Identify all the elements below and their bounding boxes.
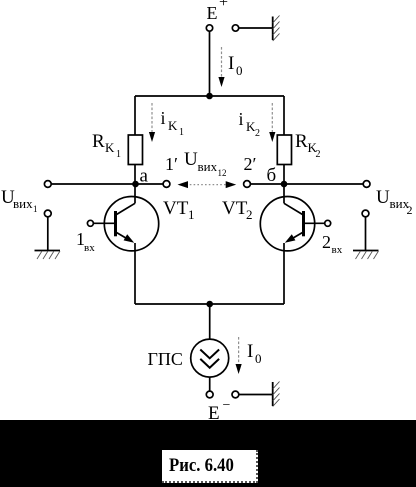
caption band bbox=[0, 420, 416, 487]
svg-text:1′: 1′ bbox=[165, 154, 178, 174]
svg-text:2: 2 bbox=[246, 207, 253, 222]
label VT2 bbox=[222, 198, 253, 222]
label 2vx bbox=[322, 232, 343, 256]
svg-text:1: 1 bbox=[179, 127, 184, 138]
svg-text:i: i bbox=[161, 108, 166, 128]
caption text bbox=[169, 456, 266, 475]
wire rail to RK1 bbox=[134, 96, 136, 135]
svg-text:б: б bbox=[267, 165, 277, 186]
current iK1 arrow bbox=[149, 103, 155, 142]
current I0 bottom arrow bbox=[236, 337, 242, 374]
wire left output bbox=[51, 183, 135, 185]
wire node a to 1' bbox=[136, 183, 164, 185]
node b bbox=[281, 181, 288, 188]
wire top rail bbox=[135, 95, 284, 97]
caption box Ris 6.40 bbox=[162, 450, 258, 483]
wire top terminal to chassis bbox=[239, 27, 272, 29]
label 1' bbox=[165, 154, 178, 174]
label I0 bbox=[228, 53, 243, 78]
svg-text:0: 0 bbox=[255, 351, 262, 366]
svg-text:I: I bbox=[247, 341, 253, 362]
wire E+ down to top node bbox=[209, 31, 211, 96]
svg-text:вих: вих bbox=[13, 196, 33, 211]
svg-text:K: K bbox=[105, 140, 115, 155]
svg-text:вих: вих bbox=[198, 159, 218, 174]
terminal 2vx bbox=[325, 220, 331, 226]
current source GPS bbox=[191, 339, 229, 377]
svg-text:i: i bbox=[239, 109, 244, 129]
svg-text:1: 1 bbox=[188, 207, 195, 222]
svg-text:U: U bbox=[184, 149, 198, 170]
svg-text:VT: VT bbox=[222, 198, 248, 219]
terminal 2' bbox=[244, 181, 251, 188]
transistor VT1 bbox=[94, 184, 159, 304]
label iK2 bbox=[239, 109, 261, 139]
label VT1 bbox=[163, 198, 195, 222]
ground left bbox=[35, 251, 61, 260]
label RK1 bbox=[92, 131, 121, 160]
wire bottom rail bbox=[135, 303, 284, 305]
ground right bbox=[353, 251, 379, 260]
wire GPS to E- terminal bbox=[209, 378, 211, 391]
current iK2 arrow bbox=[269, 103, 275, 142]
wire RK1 to node a bbox=[134, 165, 136, 185]
svg-text:0: 0 bbox=[236, 63, 243, 78]
svg-text:1: 1 bbox=[33, 204, 38, 214]
node bottom junction bbox=[206, 301, 213, 308]
terminal Uvyh2 bbox=[363, 181, 370, 188]
wire right output bbox=[284, 183, 363, 185]
svg-text:2: 2 bbox=[322, 232, 331, 252]
label node a bbox=[140, 166, 149, 187]
chassis ground bottom right bbox=[273, 382, 280, 407]
wire RK2 to node b bbox=[283, 165, 285, 185]
label node b bbox=[267, 165, 277, 186]
terminal Uvyh1 bbox=[44, 181, 51, 188]
terminal left ground bbox=[44, 210, 51, 217]
label RK2 bbox=[295, 131, 321, 160]
label Uvyh2 bbox=[376, 187, 413, 217]
svg-text:R: R bbox=[92, 131, 105, 152]
wire to right ground bbox=[365, 217, 367, 250]
label E- bbox=[208, 398, 231, 424]
label Uvyh12 bbox=[184, 149, 227, 178]
svg-text:−: − bbox=[223, 398, 231, 413]
current I0 top arrow bbox=[218, 47, 224, 87]
svg-text:R: R bbox=[295, 131, 308, 152]
node top junction bbox=[206, 93, 213, 100]
label GPS bbox=[148, 349, 183, 369]
terminal E- bbox=[206, 391, 213, 398]
svg-text:K: K bbox=[168, 118, 178, 133]
svg-text:вх: вх bbox=[332, 244, 343, 256]
wire bottom terminal to chassis bbox=[239, 394, 272, 396]
svg-text:U: U bbox=[376, 187, 390, 208]
svg-text:ГПС: ГПС bbox=[148, 349, 183, 369]
terminal right ground bbox=[362, 210, 369, 217]
svg-text:2′: 2′ bbox=[244, 154, 257, 174]
svg-text:2: 2 bbox=[407, 203, 413, 217]
svg-text:2: 2 bbox=[255, 128, 260, 139]
svg-text:+: + bbox=[219, 0, 228, 11]
label 1vx bbox=[76, 229, 95, 254]
wire to left ground bbox=[47, 217, 49, 250]
node voltage double arrow bbox=[178, 181, 237, 188]
node E+ label bbox=[207, 0, 229, 23]
node a bbox=[132, 181, 139, 188]
resistor RK1 bbox=[128, 135, 142, 165]
wire 2' to node b bbox=[251, 183, 285, 185]
resistor RK2 bbox=[277, 135, 291, 165]
label I0 bottom bbox=[247, 341, 262, 366]
label 2' bbox=[244, 154, 257, 174]
svg-text:2: 2 bbox=[316, 149, 321, 160]
wire node to current source bbox=[209, 304, 211, 339]
wire rail to RK2 bbox=[283, 96, 285, 135]
terminal top chassis bbox=[232, 25, 238, 31]
svg-text:12: 12 bbox=[218, 168, 227, 178]
transistor VT2 bbox=[260, 184, 324, 304]
svg-text:I: I bbox=[228, 53, 234, 74]
terminal 1vx bbox=[87, 220, 93, 226]
svg-text:E: E bbox=[207, 3, 218, 23]
svg-text:VT: VT bbox=[163, 198, 189, 219]
label Uvyh1 bbox=[1, 187, 38, 214]
terminal 1' bbox=[163, 181, 170, 188]
chassis ground top right bbox=[273, 16, 280, 42]
label iK1 bbox=[161, 108, 185, 138]
svg-text:вх: вх bbox=[84, 242, 95, 254]
svg-text:1: 1 bbox=[116, 149, 121, 160]
terminal bottom chassis bbox=[232, 391, 239, 398]
terminal E+ bbox=[206, 25, 212, 31]
